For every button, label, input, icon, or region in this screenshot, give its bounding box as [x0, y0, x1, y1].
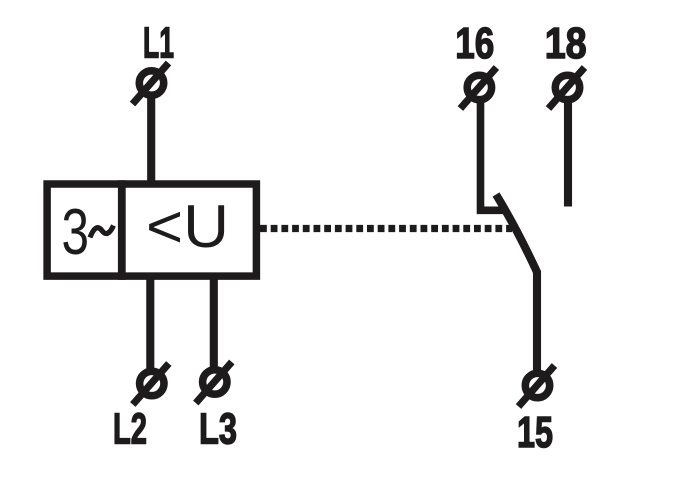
label 18 [545, 19, 587, 68]
value label 3~ [62, 195, 114, 268]
svg-text:3: 3 [62, 195, 90, 268]
wire 18 contact stub [564, 100, 572, 207]
svg-text:<U: <U [146, 193, 229, 260]
switch contact blade 15-16 [496, 195, 537, 372]
terminal L1 [133, 63, 169, 104]
label 15 [517, 408, 553, 457]
svg-text:L2: L2 [113, 404, 147, 453]
wire L1 to relay box [147, 96, 155, 184]
terminal L3 [196, 362, 232, 403]
terminal 18 [549, 68, 585, 109]
label 16 [455, 19, 494, 68]
wire relay box to L2 [146, 276, 154, 369]
svg-text:15: 15 [517, 408, 553, 457]
terminal 16 [460, 68, 496, 109]
terminal 15 [519, 366, 555, 407]
terminal L2 [133, 364, 169, 405]
svg-text:L3: L3 [199, 404, 237, 453]
relay box U1 [47, 184, 256, 276]
svg-text:16: 16 [455, 19, 494, 68]
value label <U [146, 193, 229, 260]
label L3 [199, 404, 237, 453]
label L1 [143, 18, 174, 67]
label L2 [113, 404, 147, 453]
relay box divider [118, 180, 126, 280]
wire 16 to contact hook [481, 100, 505, 210]
wire relay box to L3 [210, 276, 218, 368]
svg-text:L1: L1 [143, 18, 174, 67]
dotted actuation link [260, 225, 512, 232]
svg-text:18: 18 [545, 19, 587, 68]
